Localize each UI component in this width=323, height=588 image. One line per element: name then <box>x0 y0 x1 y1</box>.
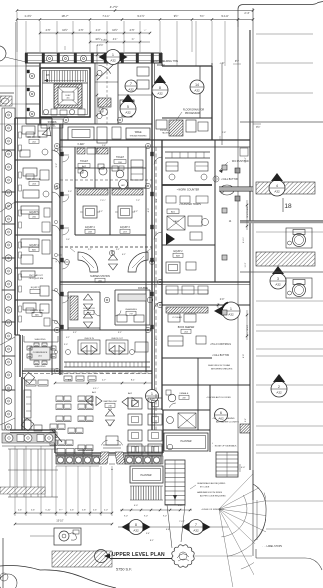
svg-text:18'-7": 18'-7" <box>61 14 68 18</box>
svg-text:DOUBLE: DOUBLE <box>138 287 148 290</box>
svg-text:6: 6 <box>220 411 222 415</box>
svg-text:A32: A32 <box>275 283 281 287</box>
svg-text:1: 1 <box>112 53 114 57</box>
svg-text:2'-1": 2'-1" <box>116 249 120 251</box>
svg-text:4' CLEAR: 4' CLEAR <box>172 316 182 319</box>
svg-text:3: 3 <box>277 277 279 281</box>
svg-text:4'-1": 4'-1" <box>113 39 118 41</box>
svg-text:A32: A32 <box>128 88 134 92</box>
svg-text:18: 18 <box>284 203 292 210</box>
svg-text:SHELVING W/ CLEAR: SHELVING W/ CLEAR <box>208 364 231 367</box>
svg-text:9'-0": 9'-0" <box>124 516 128 518</box>
svg-text:A32: A32 <box>193 529 199 533</box>
svg-text:SHELVING: SHELVING <box>35 339 46 341</box>
svg-text:7: 7 <box>195 523 197 527</box>
svg-text:SHELVING: SHELVING <box>35 366 46 368</box>
svg-text:CHECK OUT: CHECK OUT <box>111 338 124 340</box>
svg-text:CHECK IN: CHECK IN <box>84 338 94 340</box>
svg-text:3'-6": 3'-6" <box>156 338 158 342</box>
svg-text:4'-5": 4'-5" <box>130 29 135 32</box>
svg-text:3'-6": 3'-6" <box>156 198 158 202</box>
svg-text:DR. OFFICE: DR. OFFICE <box>27 179 40 181</box>
svg-text:A32: A32 <box>125 111 131 115</box>
svg-text:A32: A32 <box>276 391 282 395</box>
svg-text:ROOM: ROOM <box>157 64 164 67</box>
svg-text:A32: A32 <box>157 92 163 96</box>
svg-text:14: 14 <box>195 83 199 87</box>
svg-text:8'-1": 8'-1" <box>150 540 154 542</box>
svg-text:PHY LAYOUT: PHY LAYOUT <box>29 274 43 277</box>
svg-text:9'-6": 9'-6" <box>245 418 247 422</box>
svg-text:5'-2": 5'-2" <box>56 163 58 168</box>
svg-text:9'-0": 9'-0" <box>163 516 167 518</box>
svg-text:7: 7 <box>130 82 132 86</box>
svg-text:EQUIP 2: EQUIP 2 <box>173 251 183 253</box>
svg-text:11'-3": 11'-3" <box>245 262 247 267</box>
svg-text:3'-2": 3'-2" <box>99 211 103 213</box>
svg-text:PLANTER: PLANTER <box>180 440 191 443</box>
svg-text:6'-0": 6'-0" <box>134 505 138 507</box>
svg-text:• CALL BUTTON: • CALL BUTTON <box>212 354 229 357</box>
svg-text:4'-2": 4'-2" <box>66 337 70 339</box>
svg-text:5'-6": 5'-6" <box>93 510 97 512</box>
svg-text:┄ LEAD SHIELDING THIS: ┄ LEAD SHIELDING THIS <box>150 60 178 63</box>
svg-text:6'-1": 6'-1" <box>122 254 126 256</box>
svg-text:5750 S.F.: 5750 S.F. <box>116 568 132 572</box>
svg-text:THIN BAY FINISHED: THIN BAY FINISHED <box>129 135 147 138</box>
svg-text:14'-6": 14'-6" <box>245 157 247 162</box>
svg-text:10½": 10½" <box>62 28 68 32</box>
svg-text:3'-4": 3'-4" <box>146 533 150 535</box>
svg-text:A32: A32 <box>133 529 139 533</box>
svg-text:2'-8": 2'-8" <box>222 132 227 134</box>
svg-text:9'-1½": 9'-1½" <box>137 14 144 18</box>
svg-text:7⅝": 7⅝" <box>200 14 205 18</box>
svg-text:A62: A62 <box>218 417 224 421</box>
svg-text:OF EQUIP RM: OF EQUIP RM <box>29 278 44 280</box>
svg-text:7'-1¾": 7'-1¾" <box>102 14 109 18</box>
svg-text:SPLIT FACE: SPLIT FACE <box>246 206 249 218</box>
svg-text:4'-5": 4'-5" <box>46 29 51 32</box>
svg-text:EQUIP 3: EQUIP 3 <box>120 226 130 229</box>
svg-text:5'-6": 5'-6" <box>31 510 35 512</box>
svg-text:9'-0": 9'-0" <box>144 516 148 518</box>
svg-text:4'-3": 4'-3" <box>108 425 112 427</box>
svg-text:TABLE: TABLE <box>134 131 142 134</box>
svg-text:5'-10": 5'-10" <box>45 510 51 512</box>
svg-text:9½": 9½" <box>174 14 179 18</box>
svg-text:BY CODE: BY CODE <box>200 486 210 488</box>
svg-text:TOILET: TOILET <box>80 161 89 163</box>
svg-text:• WORK COUNTER: • WORK COUNTER <box>177 189 200 192</box>
svg-text:CAST: CAST <box>173 220 179 223</box>
svg-text:BOOK KEEPER: BOOK KEEPER <box>178 327 195 329</box>
svg-text:FEMALE: FEMALE <box>180 392 189 395</box>
svg-text:EQUIP 5: EQUIP 5 <box>29 212 39 214</box>
svg-text:¾": ¾" <box>132 38 135 41</box>
svg-text:GUARDRAILS AS REQUIRED: GUARDRAILS AS REQUIRED <box>197 482 226 485</box>
svg-text:NURSES STATION: NURSES STATION <box>90 275 110 278</box>
svg-text:• DOORS AUTOLOCKED: • DOORS AUTOLOCKED <box>206 396 231 399</box>
svg-text:DR. OFFICE: DR. OFFICE <box>27 137 40 139</box>
svg-text:1: 1 <box>230 307 232 311</box>
svg-text:4'-0": 4'-0" <box>241 467 246 469</box>
svg-text:5'-6": 5'-6" <box>18 510 22 512</box>
svg-text:4'-7½": 4'-7½" <box>110 5 118 9</box>
svg-text:7'-2": 7'-2" <box>136 200 140 202</box>
svg-text:A32: A32 <box>110 59 116 63</box>
svg-text:5'-6": 5'-6" <box>70 510 74 512</box>
svg-text:BETWEEN SHELVES: BETWEEN SHELVES <box>211 368 233 370</box>
svg-text:CONFERENCE: CONFERENCE <box>33 352 48 354</box>
svg-text:5'-0": 5'-0" <box>66 239 70 241</box>
svg-text:401: 401 <box>67 98 70 100</box>
svg-text:5'-0": 5'-0" <box>104 510 108 512</box>
svg-text:X-RAY: X-RAY <box>77 143 85 146</box>
svg-text:4'-0": 4'-0" <box>148 208 150 213</box>
svg-text:PLANTER: PLANTER <box>140 474 151 477</box>
svg-text:9'-1⅛": 9'-1⅛" <box>221 14 228 18</box>
svg-text:← EDGE OF SIDEWALK: ← EDGE OF SIDEWALK <box>212 445 237 448</box>
svg-text:2'-4": 2'-4" <box>244 11 249 15</box>
svg-text:3½": 3½" <box>235 59 239 63</box>
svg-text:ELEVATOR: ELEVATOR <box>83 307 95 310</box>
svg-text:EQUIP 4: EQUIP 4 <box>29 245 39 247</box>
svg-text:A32: A32 <box>194 89 200 93</box>
svg-text:EQUIP 1: EQUIP 1 <box>31 287 40 289</box>
svg-text:4'-0": 4'-0" <box>96 29 101 32</box>
svg-text:⊥ ⅜": ⊥ ⅜" <box>219 62 225 65</box>
svg-text:6'-0": 6'-0" <box>243 354 245 358</box>
svg-text:2'-0": 2'-0" <box>220 299 225 301</box>
svg-text:UPPER LEVEL PLAN: UPPER LEVEL PLAN <box>112 552 165 558</box>
svg-text:5'-8": 5'-8" <box>82 510 86 512</box>
svg-text:DN: DN <box>46 73 50 77</box>
svg-text:FLOOR DRAIN FOR: FLOOR DRAIN FOR <box>183 109 205 112</box>
svg-text:2'-1": 2'-1" <box>88 249 92 251</box>
svg-text:8'-1": 8'-1" <box>131 380 136 382</box>
svg-text:A32: A32 <box>274 190 280 194</box>
svg-text:3½": 3½" <box>256 125 260 129</box>
svg-text:3'-1": 3'-1" <box>118 332 122 334</box>
svg-text:1'-4½": 1'-4½" <box>24 14 31 18</box>
svg-text:2'-6": 2'-6" <box>102 145 106 147</box>
svg-text:2: 2 <box>278 385 280 389</box>
svg-text:• PLASTER TRAPS: • PLASTER TRAPS <box>179 203 201 206</box>
svg-text:WAITING RM: WAITING RM <box>103 400 116 403</box>
svg-text:A62: A62 <box>121 184 124 187</box>
svg-text:HANDRAILS BOTH SIDES: HANDRAILS BOTH SIDES <box>197 491 223 494</box>
svg-text:6'-8": 6'-8" <box>166 529 170 531</box>
svg-text:3'-0": 3'-0" <box>64 344 68 346</box>
svg-text:10½": 10½" <box>112 28 118 32</box>
svg-text:STAIRS: STAIRS <box>48 121 57 124</box>
svg-text:3'-2": 3'-2" <box>134 211 138 213</box>
svg-text:3'-0": 3'-0" <box>68 191 72 193</box>
svg-text:AS PER CODE REQUIRED: AS PER CODE REQUIRED <box>200 494 226 497</box>
svg-text:4'-5": 4'-5" <box>79 29 84 32</box>
svg-text:EQUIP 4: EQUIP 4 <box>85 226 95 229</box>
svg-text:TOILET: TOILET <box>116 157 125 159</box>
svg-text:4: 4 <box>276 184 278 188</box>
svg-text:5: 5 <box>127 105 129 109</box>
svg-text:6'-4¾": 6'-4¾" <box>242 237 245 243</box>
svg-text:1: 1 <box>151 392 153 396</box>
svg-text:8: 8 <box>159 86 161 90</box>
svg-text:15'-10": 15'-10" <box>56 521 63 523</box>
svg-text:• HI-LO CONTROLS: • HI-LO CONTROLS <box>210 344 231 346</box>
svg-text:PROCESSOR: PROCESSOR <box>185 113 200 115</box>
svg-text:2'-7": 2'-7" <box>102 380 107 382</box>
svg-text:8: 8 <box>135 523 137 527</box>
svg-text:• CALL BUTTON: • CALL BUTTON <box>221 178 238 181</box>
svg-text:←·· LABEL STOPS: ←·· LABEL STOPS <box>262 545 282 548</box>
svg-text:3'-1": 3'-1" <box>73 332 77 334</box>
svg-text:CHANGING: CHANGING <box>125 308 137 311</box>
svg-text:A32: A32 <box>228 313 234 317</box>
